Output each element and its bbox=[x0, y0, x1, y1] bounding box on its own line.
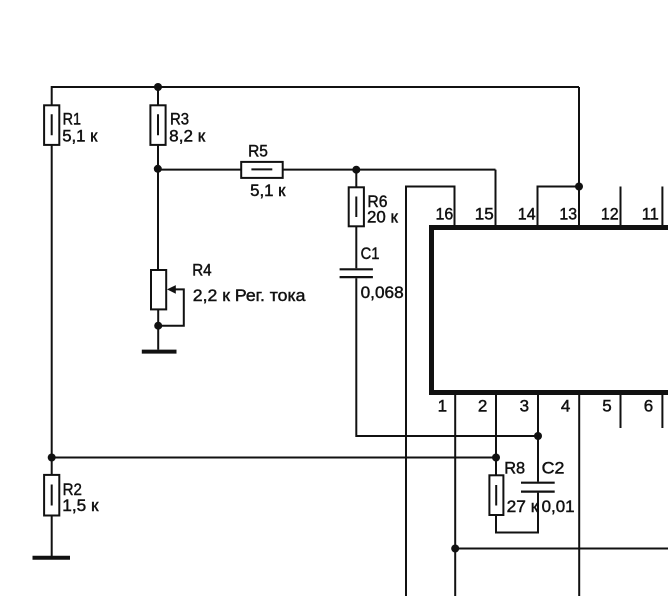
svg-text:14: 14 bbox=[518, 204, 536, 223]
svg-text:0,01: 0,01 bbox=[542, 497, 575, 516]
svg-text:16: 16 bbox=[436, 204, 454, 223]
svg-text:R4: R4 bbox=[192, 260, 211, 279]
svg-text:2,2 к Рег. тока: 2,2 к Рег. тока bbox=[193, 286, 306, 305]
svg-text:27 к: 27 к bbox=[507, 497, 539, 516]
svg-text:R5: R5 bbox=[248, 142, 268, 161]
svg-text:3: 3 bbox=[520, 397, 529, 416]
svg-text:13: 13 bbox=[559, 204, 577, 223]
svg-text:15: 15 bbox=[475, 204, 494, 223]
svg-text:R8: R8 bbox=[504, 458, 525, 477]
svg-text:5,1 к: 5,1 к bbox=[62, 127, 98, 146]
svg-text:11: 11 bbox=[642, 204, 659, 223]
svg-text:С2: С2 bbox=[542, 458, 565, 477]
svg-text:5: 5 bbox=[602, 397, 611, 416]
svg-text:12: 12 bbox=[601, 204, 619, 223]
svg-text:R1: R1 bbox=[63, 109, 81, 128]
svg-text:6: 6 bbox=[644, 397, 653, 416]
svg-text:4: 4 bbox=[561, 397, 570, 416]
svg-text:20 к: 20 к bbox=[367, 207, 398, 226]
svg-text:0,068: 0,068 bbox=[361, 283, 404, 302]
svg-text:8,2 к: 8,2 к bbox=[169, 127, 206, 146]
svg-text:1: 1 bbox=[438, 397, 447, 416]
svg-text:1,5 к: 1,5 к bbox=[62, 496, 99, 515]
svg-text:5,1 к: 5,1 к bbox=[250, 181, 286, 200]
svg-text:C1: C1 bbox=[361, 244, 380, 263]
svg-text:2: 2 bbox=[478, 397, 487, 416]
